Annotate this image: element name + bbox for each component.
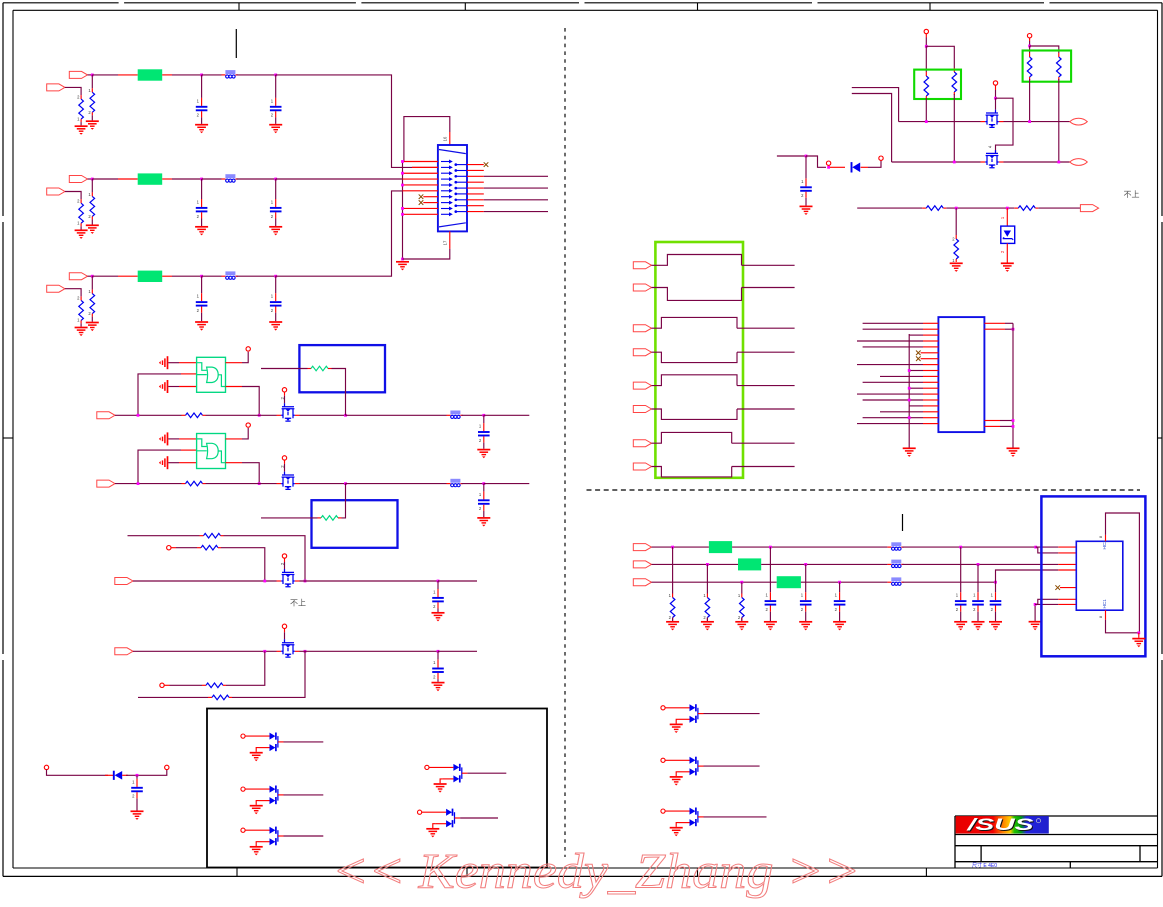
wire G1 out2 down — [242, 387, 259, 416]
node rowA junction 3 — [274, 74, 277, 77]
gate U G2 — [197, 434, 226, 469]
wire U2 right pin1 — [984, 322, 1013, 324]
wire rowF — [138, 696, 208, 698]
border right zone ticks — [1158, 216, 1163, 660]
wire BR line3 pin4 red — [1058, 569, 1076, 571]
capacitor rowAC2 — [270, 98, 282, 118]
ground line3 Rv — [950, 263, 963, 272]
node rowC junction 1 — [91, 275, 94, 278]
wire BR line1 c — [902, 546, 1035, 548]
wire U2 right bus — [1012, 323, 1014, 447]
node rowC junction 3 — [274, 275, 277, 278]
resistor BR Rv2 — [703, 593, 709, 621]
node rowB junction 2 — [200, 178, 203, 181]
wire Q box2 out — [284, 794, 324, 796]
wire right pin5 stub — [467, 193, 484, 195]
wire line2 seg4 — [346, 483, 447, 485]
wire connector pin17 stub — [443, 231, 450, 248]
wire box1 res in — [261, 368, 308, 370]
node BL junction — [136, 774, 139, 777]
transistor Q box1 — [241, 733, 284, 752]
wire line1 seg3 — [300, 414, 346, 416]
node DJ junction — [805, 155, 808, 158]
ground Q box2 — [250, 806, 263, 815]
wire U3 top pin red — [1098, 535, 1106, 541]
wire rowA port tip — [88, 74, 93, 76]
label zener pin1 — [1000, 216, 1005, 219]
capacitor rowCC2 — [270, 293, 282, 313]
wire lineC seg2 — [300, 580, 439, 582]
ground Q box4 — [434, 784, 447, 793]
wire Q box5 out — [460, 817, 498, 819]
node BR l1 j1 — [671, 546, 674, 549]
resistor boxB R1 — [1027, 53, 1032, 80]
capacitor rowBC2 — [270, 199, 282, 219]
transistor lineC Q — [277, 569, 300, 587]
node U2 right j2 — [1012, 419, 1015, 422]
ground rowCR1 — [86, 323, 99, 332]
ground rowBR1 — [86, 225, 99, 234]
node line3 j1 — [955, 207, 958, 210]
node U2 right j1 — [1012, 328, 1015, 331]
wire G2 in2 riser — [138, 450, 181, 484]
svg-text:不上: 不上 — [290, 599, 306, 608]
wire M1 gate red — [995, 85, 997, 90]
port relay p3 inB — [633, 406, 651, 413]
wire rowE seg — [176, 547, 197, 549]
wire Q right1 out — [704, 713, 760, 715]
node U3 gnd j — [1034, 603, 1037, 606]
power node rowE — [167, 546, 171, 550]
wire DJ cap gnd — [805, 198, 807, 206]
wire rowC filter out red — [162, 275, 172, 277]
wire rowB filter out — [172, 178, 202, 180]
speaker input G1 bottom — [159, 380, 168, 393]
wire rowB to filter — [92, 178, 118, 180]
node M1 gate junction — [994, 97, 997, 100]
wire rowC junction2 to C1 — [201, 276, 203, 293]
inductor rowCL1 — [222, 271, 238, 279]
wire G1 out1 up — [242, 352, 248, 363]
wire rowE red — [171, 547, 176, 549]
wire BR Ca2 gnd — [805, 612, 807, 621]
node rowB junction 3 — [274, 178, 277, 181]
node BR l1 j4 — [1034, 546, 1037, 549]
wire M2 gate — [995, 150, 997, 153]
wire G2 out2 red — [226, 462, 243, 464]
wire rowA junction2 to inductor — [202, 74, 222, 76]
wire output line 2 — [484, 175, 548, 177]
wire G2 in3 red — [179, 462, 197, 464]
wire Q right2 out — [704, 765, 760, 767]
wire DJ in — [777, 155, 806, 157]
wire relay p2 loop top — [652, 317, 738, 328]
wire boxB R1 to line1 — [1029, 79, 1031, 122]
wire rowC inductor out — [237, 275, 276, 277]
node line1 jA — [925, 120, 928, 123]
wire lineC j3 to cap — [437, 581, 439, 589]
wire BR line1 b — [732, 546, 887, 548]
ground rowBC1 — [195, 227, 208, 236]
wire pin9 stub — [403, 207, 438, 209]
wire line1 seg1 — [115, 414, 182, 416]
power node M1 gate — [993, 81, 997, 85]
wire BR line1 pin2 red — [1058, 552, 1076, 554]
resistor boxA R1 — [924, 72, 929, 99]
filter bead rowAFB — [138, 69, 163, 80]
ground BR Ca2 — [799, 622, 812, 631]
ground BR Cb2 — [972, 622, 985, 631]
transistor M2 — [981, 150, 1004, 168]
power node rowE2 — [160, 683, 164, 687]
wire BL cap stub — [136, 775, 138, 779]
port BR in3 — [633, 579, 651, 586]
wire rowB C2 to ground — [275, 219, 277, 227]
watermark text — [332, 843, 860, 899]
wire rowC junction2 to inductor — [202, 275, 222, 277]
node line1 j2 — [344, 414, 347, 417]
wire pin5 stub — [403, 184, 438, 186]
wire right pin4 stub — [467, 187, 484, 189]
capacitor rowBC1 — [196, 199, 208, 219]
wire U3 pin5 red — [1060, 587, 1076, 589]
node U3 gnd2 j — [1137, 631, 1140, 634]
wire U2 right pin18 — [984, 425, 1013, 427]
ground lineC C — [432, 613, 445, 622]
resistor box2 frame — [312, 500, 398, 548]
tick mark top-left zone — [235, 29, 237, 58]
resistor line3 Rv — [952, 235, 958, 263]
port relay p2 inA — [633, 325, 651, 332]
node lineD j2 — [304, 650, 307, 653]
wire BL red1 — [105, 774, 114, 776]
wire boxA to R1 top — [925, 46, 927, 72]
wire BR Cb1 gnd — [960, 612, 962, 621]
capacitor BR Cb3 — [990, 592, 1002, 612]
power node BL left — [44, 765, 48, 769]
port relay p3 inA — [633, 382, 651, 389]
wire pin6 stub — [403, 190, 438, 192]
wire G1 out2 red — [226, 386, 243, 388]
inductor line1L — [447, 411, 463, 419]
node lineD j3 — [437, 650, 440, 653]
inductor rowAL1 — [222, 70, 238, 78]
wire rowB filter out red — [162, 178, 172, 180]
wire BL red2 — [122, 774, 128, 776]
node boxB junction — [1028, 45, 1031, 48]
wire relay p2 outB — [737, 351, 795, 353]
wire rowA to connector — [276, 75, 438, 167]
wire G1 in2 riser — [138, 374, 181, 415]
node line2 j3 — [482, 482, 485, 485]
resistor line3 R2 — [1014, 206, 1038, 211]
no-connect U2 pin7 — [916, 356, 923, 361]
svg-text:不上: 不上 — [1124, 190, 1140, 199]
wire rowE tail — [221, 548, 265, 581]
ground rowAC2 — [269, 125, 282, 134]
node BR l1 j3 — [959, 546, 962, 549]
node rowC junction 2 — [200, 275, 203, 278]
port relay p4 inB — [633, 463, 651, 470]
wire rowB R2 to ground — [80, 226, 82, 229]
wire rowB C1 to ground — [201, 219, 203, 227]
wire boxB pwr — [1029, 41, 1031, 46]
port line1 out — [1070, 118, 1088, 125]
ground BR Rv1 — [666, 622, 679, 631]
border left zone ticks — [2, 216, 13, 660]
connector J1 body — [438, 145, 467, 231]
transistor Q right2 — [661, 757, 704, 776]
wire BR line3 c — [902, 581, 995, 583]
port rowAA input — [69, 71, 87, 78]
border top zone ticks — [119, 2, 1050, 10]
ground BR Rv3 — [735, 622, 748, 631]
wire BR Rv3 gnd — [741, 618, 743, 622]
wire rowA inductor out — [237, 74, 276, 76]
wire BR line1 step — [1036, 547, 1059, 553]
wire pin7 stub — [423, 196, 438, 198]
ground Q box3 — [250, 847, 263, 856]
resistor boxB R2 — [1057, 53, 1062, 80]
transistor lineD Q — [277, 639, 300, 657]
wire relay out1 — [742, 264, 795, 266]
wire DJ step — [806, 156, 826, 167]
wire BR Rv1 stub — [672, 547, 674, 593]
node U2 bus j8 — [908, 369, 911, 372]
wire lineC cap gnd — [437, 609, 439, 613]
wire G1 in2 red — [181, 373, 197, 375]
node G1 out junction — [258, 414, 261, 417]
wire rowC R2 to ground — [80, 323, 82, 326]
svg-text:16: 16 — [443, 136, 448, 141]
wire relay p4 outB — [732, 466, 795, 468]
wire relay p2 loop bottom — [652, 352, 738, 362]
wire output line 4 — [484, 187, 548, 189]
diode zener ZD — [1001, 226, 1015, 243]
wire rowA filter out red — [162, 74, 172, 76]
ground rowCC1 — [195, 322, 208, 331]
ic U2 left pin stubs — [923, 323, 938, 423]
transistor Q box5 — [418, 809, 461, 828]
power node line1 gate — [282, 388, 286, 392]
transistor Q box2 — [241, 786, 284, 805]
wire U2 gnd bus — [908, 334, 910, 448]
wire pin2 stub — [412, 166, 438, 168]
ground Q right3 — [670, 828, 683, 837]
title block frame — [955, 816, 1158, 868]
resistor rowF R — [208, 695, 232, 700]
wire lineC seg1 — [133, 580, 277, 582]
ground rowCR2 — [75, 328, 88, 337]
filter bead BR2 — [738, 558, 761, 570]
wire rowB junction3 to C2 — [275, 179, 277, 199]
wire TR stub1 — [852, 88, 899, 122]
node lineC j1 — [263, 580, 266, 583]
power node line2 gate — [282, 456, 286, 460]
wire M1 gate — [995, 90, 997, 98]
wire lineD gate — [284, 632, 286, 639]
node line2 jB — [1057, 161, 1060, 164]
wire rowA portB to R2 — [65, 87, 81, 95]
node lineD j1 — [263, 650, 266, 653]
no-connect U2 pin6 — [916, 351, 923, 356]
wire G1 in1 red — [179, 362, 197, 364]
resistor rowCR2 — [77, 296, 83, 324]
inductor line2L — [447, 479, 463, 487]
port rowAB input — [47, 84, 65, 91]
wire TR line1 b — [1004, 121, 1070, 123]
resistor boxA R2 — [952, 68, 957, 95]
wire rowA R2 to ground — [80, 122, 82, 125]
wire lineD seg1 — [133, 650, 277, 652]
node bus junction y214 — [401, 213, 404, 216]
wire connector top loop — [404, 117, 450, 162]
wire rowB portB to R2 — [65, 192, 81, 200]
ground rowBC2 — [269, 227, 282, 236]
relay box frame — [655, 242, 743, 478]
filter box A frame — [914, 70, 961, 99]
wire pin1 stub — [403, 161, 438, 163]
wire line3 seg2 — [946, 207, 1014, 209]
connector J1 left pins — [441, 160, 453, 217]
port rowCB input — [47, 285, 65, 292]
wire BR line3 a — [652, 581, 777, 583]
inductor rowBL1 — [222, 174, 238, 182]
wire rowB port tip — [88, 178, 93, 180]
label line1 gate pin — [280, 396, 285, 399]
transistor Q box4 — [425, 764, 468, 783]
wire line1 seg5 — [462, 414, 484, 416]
wire U3 top loop — [1106, 513, 1140, 633]
resistor BR Rv3 — [738, 593, 744, 621]
port relay in1 — [633, 262, 651, 269]
wire lineD j3 to cap — [437, 651, 439, 659]
wire rowE2 red — [164, 684, 169, 686]
resistor rowAR2 — [77, 94, 83, 122]
wire BL left down — [47, 770, 109, 776]
resistor rowD R — [200, 533, 224, 538]
node BR l2 j3 — [977, 563, 980, 566]
wire U3 gnd riser — [1034, 604, 1036, 621]
label buShang left — [290, 599, 306, 608]
ground line1C — [477, 450, 490, 459]
wire boxA R2 to line2 — [953, 94, 955, 162]
wire BR Ca2 stub — [805, 564, 807, 592]
wire line2 mosfet gate — [284, 460, 286, 464]
transistor line1Q — [277, 403, 300, 421]
wire rowB red to filter — [118, 178, 138, 180]
wire rowA filter out — [172, 74, 202, 76]
wire line1 seg4 — [346, 414, 447, 416]
wire BR Rv2 stub — [706, 564, 708, 593]
wire relay p4 loop top — [652, 432, 732, 443]
ground BL C — [131, 811, 144, 820]
wire right pin0 stub — [467, 164, 484, 166]
node U2 bus j16 — [908, 416, 911, 419]
node G2 out junction — [258, 482, 261, 485]
capacitor BR Cb1 — [955, 592, 967, 612]
wire line1 seg6 — [484, 414, 530, 416]
power node BL right — [165, 765, 169, 769]
transistor M1 — [981, 110, 1004, 128]
node BR l3 j3 — [994, 581, 997, 584]
ic U2 body — [938, 317, 984, 432]
svg-text:17: 17 — [443, 240, 448, 245]
wire line3 Rv stub — [955, 208, 957, 235]
node bus junction y173 — [401, 172, 404, 175]
wire BR Cb1 stub — [960, 547, 962, 592]
speaker input G1 top — [159, 356, 168, 369]
wire Q box3 out — [284, 835, 324, 837]
ground rowAR1 — [86, 121, 99, 130]
wire right pin2 stub — [467, 175, 484, 177]
svg-text:尺寸 E 4E0: 尺寸 E 4E0 — [972, 862, 997, 869]
wire rowC red to filter — [118, 275, 138, 277]
label zener pin2 — [1000, 250, 1005, 253]
wire line2 seg1 — [115, 483, 182, 485]
node line2 jA — [953, 161, 956, 164]
wire rowC C1 to ground — [201, 313, 203, 322]
ground DJ C — [800, 206, 813, 215]
wire rowA C2 to ground — [275, 117, 277, 124]
wire rowF tail — [232, 651, 305, 697]
wire BR line1 pin1 red — [1058, 546, 1076, 548]
wire boxA R1 to line1 — [925, 98, 927, 122]
ground U2 left — [903, 448, 916, 457]
wire output line 8 — [484, 211, 548, 213]
power node lineC gate — [282, 554, 286, 558]
port relay in2 — [633, 284, 651, 291]
wire DJ cap stub — [805, 156, 807, 178]
ground BR Ca1 — [764, 622, 777, 631]
wire G1 out1 red — [226, 362, 243, 364]
wire rowC portB to R2 — [65, 289, 81, 297]
svg-text:HC2: HC2 — [1102, 540, 1107, 550]
port lineD input — [115, 648, 133, 655]
wire G2 out1 red — [226, 438, 243, 440]
capacitor rowCC1 — [196, 293, 208, 313]
wire rowA junction2 to C1 — [201, 75, 203, 98]
capacitor BR Ca3 — [834, 592, 846, 612]
wire U2 right pin17 — [984, 420, 1013, 422]
no-connect x right pin top — [484, 162, 489, 167]
ic U3 body — [1076, 540, 1123, 610]
port BR in2 — [633, 561, 651, 568]
filter bead BR1 — [709, 541, 732, 553]
port relay p4 inA — [633, 440, 651, 447]
capacitor line2C — [478, 491, 490, 511]
ground BR Ca3 — [833, 622, 846, 631]
wire rowD — [128, 535, 200, 537]
capacitor BR Cb2 — [972, 592, 984, 612]
wire line1 mosfet gate — [284, 392, 286, 396]
wire BL cap gnd — [136, 798, 138, 810]
no-connect x left pin 8 — [419, 200, 424, 205]
wire TR line2 — [892, 161, 981, 163]
resistor rowE R — [197, 545, 221, 550]
wire BR line1 pin1 — [1036, 546, 1059, 548]
wire G2 out1 up — [242, 428, 248, 439]
wire BR line1 a — [652, 546, 709, 548]
wire boxB R2 to line2 — [1058, 79, 1060, 162]
power node DJ right — [879, 156, 883, 160]
wire U3 bottom loop — [1106, 620, 1139, 633]
wire G2 out2 down — [242, 463, 259, 484]
wire TR stub2 — [852, 94, 892, 163]
ground lineD C — [432, 683, 445, 692]
ground zener — [1001, 263, 1014, 272]
ground Q box1 — [250, 753, 263, 762]
